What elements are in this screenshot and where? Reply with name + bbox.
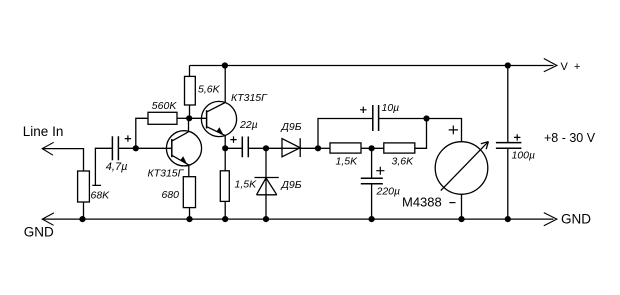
svg-text:КТ315Г: КТ315Г (148, 168, 185, 180)
wire: node C down through shunt diode to GND rail (265, 148, 267, 219)
capacitor 220µ (361, 178, 383, 184)
wire: 5,6K bottom to node B (189, 105, 191, 118)
transistor Q1 KT315G (166, 131, 201, 166)
wire: Line In to 68K top (42, 149, 83, 171)
wire: 68K bottom to GND rail (83, 202, 85, 219)
node: 220µ at GND (369, 216, 375, 222)
resistor 68K (78, 171, 90, 202)
svg-text:220µ: 220µ (376, 186, 401, 198)
node C (263, 145, 269, 151)
Q2 collector (207, 66, 225, 112)
node: shunt diode at GND (263, 216, 269, 222)
node D0 (315, 145, 321, 151)
svg-text:GND: GND (561, 212, 591, 227)
Q1 base bar (171, 139, 173, 157)
polarity + of 4,7µ (125, 135, 131, 141)
node: meter at GND (458, 216, 464, 222)
svg-text:3,6K: 3,6K (392, 155, 415, 167)
resistor 1,5K (vertical) (220, 171, 229, 202)
wire: meter bottom to GND rail (461, 194, 463, 219)
wire: emitter node down to 1,5K (224, 148, 226, 171)
wire: node D down to 220µ (371, 148, 373, 178)
node: 680 at GND (186, 216, 192, 222)
wire: V+ rail down to 100µ (507, 66, 509, 143)
Q2 emitter (207, 127, 225, 149)
polarity - of meter (449, 202, 455, 204)
capacitor 22µ (242, 137, 248, 158)
svg-text:V +: V + (561, 61, 582, 73)
svg-text:GND: GND (24, 225, 54, 240)
wire: emitter node to 22µ (225, 147, 242, 149)
Q1 collector (172, 118, 188, 141)
GND rail (42, 218, 553, 220)
capacitor 4,7µ (112, 136, 118, 160)
wire: 100µ to GND rail (507, 148, 509, 219)
svg-text:Д9Б: Д9Б (281, 121, 302, 133)
meter M4388 (435, 142, 488, 195)
capacitor 10µ (373, 105, 379, 131)
svg-text:100µ: 100µ (512, 149, 536, 161)
meter needle (441, 142, 489, 191)
node: 68K at GND (79, 216, 85, 222)
node: 100µ at GND (505, 216, 511, 222)
wire: 22µ to node C (249, 147, 266, 149)
wire: 1,5K to 3,6K through node D (361, 147, 384, 149)
wire: 220µ to GND rail (371, 184, 373, 219)
GND right arrow (544, 213, 557, 226)
svg-text:Д9Б: Д9Б (281, 179, 302, 191)
wire: node B to Q2 base (189, 117, 206, 119)
node: 1,5K at GND (222, 216, 228, 222)
resistor 1,5K (horizontal) (330, 143, 361, 153)
svg-text:Line In: Line In (23, 124, 64, 139)
resistor 680 (183, 177, 195, 208)
svg-text:68K: 68K (91, 190, 111, 202)
Q1 emitter arrow (180, 156, 187, 164)
polarity + of 220µ (376, 167, 384, 175)
svg-text:1,5K: 1,5K (336, 155, 359, 167)
resistor 560K (148, 112, 177, 124)
node: Q2 collector on V+ rail (222, 62, 228, 68)
Q2 emitter arrow (217, 127, 224, 134)
node D (369, 145, 375, 151)
input arrow (Line In) (42, 142, 54, 155)
wire: node C through series diode to node D0 (266, 147, 318, 149)
svg-text:M4388: M4388 (402, 195, 442, 210)
wire: V+ top rail (190, 65, 554, 67)
Q1 emitter (172, 156, 189, 177)
polarity + of 100µ (514, 134, 520, 140)
svg-text:680: 680 (162, 189, 180, 201)
diode D9B (shunt, cathode up) (255, 178, 279, 195)
wire: node E to meter top (427, 119, 462, 143)
wire: top rail down to 5,6K (189, 66, 191, 77)
node: 100µ on V+ rail (505, 62, 511, 68)
meter needle arrowhead (481, 142, 489, 150)
Q2 base bar (206, 110, 208, 128)
wire: node D0 to 1,5K horizontal (318, 147, 330, 149)
wire: 10µ right to node E (379, 118, 427, 120)
wire: node D0 up and right to 10µ (318, 119, 372, 149)
node E (423, 115, 429, 121)
transistor Q2 KT315G (201, 101, 236, 136)
node: Q2 emitter junction (222, 145, 228, 151)
svg-text:КТ315Г: КТ315Г (231, 92, 268, 104)
svg-text:1,5K: 1,5K (235, 179, 258, 191)
svg-text:10µ: 10µ (382, 102, 400, 114)
wire: node A to Q1 base (136, 147, 172, 149)
polarity + of 22µ (230, 136, 236, 142)
svg-text:5,6K: 5,6K (198, 84, 221, 96)
polarity + of meter (449, 126, 458, 135)
capacitor 100µ (496, 143, 522, 149)
svg-text:+8 - 30 V: +8 - 30 V (544, 131, 596, 145)
node A (133, 145, 139, 151)
wire: 680 to GND rail (189, 208, 191, 220)
wire: 1,5K to GND rail (224, 201, 226, 219)
diode D9B (series, pointing right) (282, 138, 300, 157)
wire: 560K right lead to node B (177, 117, 189, 119)
svg-text:22µ: 22µ (239, 119, 258, 131)
wire: 3,6K right lead up to node E (415, 119, 427, 149)
node B (186, 115, 192, 121)
polarity + of 10µ (360, 107, 366, 113)
svg-text:560K: 560K (152, 100, 178, 112)
V+ arrow (544, 59, 557, 72)
resistor 3,6K (384, 143, 415, 153)
svg-text:4,7µ: 4,7µ (106, 161, 128, 173)
wire: C1 left lead down tap to 68K (92, 148, 112, 185)
wire: 4,7µ to node A (119, 147, 136, 149)
GND left arrow (42, 213, 54, 225)
resistor 5,6K (185, 76, 196, 105)
wire: node A up to 560K left lead (136, 118, 148, 148)
